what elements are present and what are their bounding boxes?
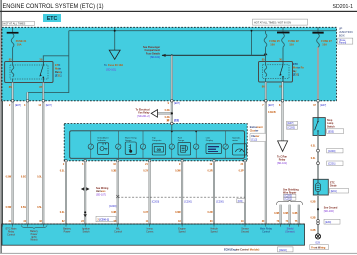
shield dashed wire bbox=[118, 196, 245, 198]
pin circle 6 bbox=[223, 144, 228, 149]
svg-text:[SD-100]: [SD-100] bbox=[324, 210, 334, 213]
ECM pin function labels bbox=[6, 228, 295, 242]
svg-text:ENGINE CONTROL SYSTEM (ETC) (1: ENGINE CONTROL SYSTEM (ETC) (1) bbox=[3, 3, 104, 10]
cluster bus nodes bbox=[171, 131, 173, 133]
svg-text:10A: 10A bbox=[322, 42, 327, 46]
shield wires to ECM bbox=[280, 205, 282, 224]
svg-text:0.5L: 0.5L bbox=[37, 206, 42, 209]
speedometer bbox=[232, 137, 246, 155]
svg-text:Fuel: Fuel bbox=[178, 137, 183, 139]
wire relay K2 pin86 to ECM bbox=[265, 82, 267, 224]
svg-text:Display: Display bbox=[206, 140, 214, 142]
cluster dividers bbox=[91, 131, 226, 159]
shield crossing mark bbox=[116, 195, 119, 198]
shield brace bbox=[276, 200, 302, 205]
svg-text:Cluster: Cluster bbox=[250, 129, 259, 132]
svg-text:[E34]: [E34] bbox=[325, 221, 331, 224]
fuse F31 feed wire bbox=[12, 27, 14, 32]
svg-text:To: To bbox=[104, 63, 107, 67]
svg-text:0.3G/B: 0.3G/B bbox=[268, 111, 276, 114]
to fuel pump arrow bbox=[109, 50, 120, 59]
svg-text:Switch: Switch bbox=[82, 230, 90, 233]
inline connector pair bbox=[317, 219, 320, 222]
svg-text:0.3Y: 0.3Y bbox=[143, 211, 148, 214]
svg-text:[C2]: [C2] bbox=[174, 119, 179, 122]
svg-text:0.3B: 0.3B bbox=[310, 201, 315, 204]
wire diode to ground bbox=[317, 195, 319, 233]
wire fused feed down to cluster bbox=[171, 55, 173, 123]
branch wire pin30 to bus and to pin87 net bbox=[28, 31, 69, 101]
svg-text:[C201]: [C201] bbox=[285, 198, 293, 201]
power bus bbox=[69, 30, 337, 32]
svg-text:Switch: Switch bbox=[327, 125, 335, 128]
relay K1 ETC main relay outer box bbox=[5, 62, 53, 83]
node on horizontal feed bbox=[171, 54, 173, 56]
connector labels near K2-87 wire bbox=[287, 121, 298, 125]
label HOT AT ALL TIMES bbox=[2, 21, 34, 25]
svg-text:Gauge: Gauge bbox=[178, 140, 185, 142]
svg-text:Control: Control bbox=[262, 230, 270, 233]
svg-text:[C200]: [C200] bbox=[184, 201, 192, 204]
svg-text:[SD-201-2]: [SD-201-2] bbox=[137, 115, 149, 118]
cluster entry connector bbox=[171, 122, 174, 125]
svg-text:Main: Main bbox=[55, 67, 61, 71]
svg-text:[C200]: [C200] bbox=[152, 201, 160, 204]
header rule bbox=[0, 11, 357, 12]
svg-text:Comm.: Comm. bbox=[146, 230, 154, 233]
wire relay K1 pin86 to ECM bbox=[12, 83, 14, 225]
svg-text:0.3W: 0.3W bbox=[175, 170, 181, 173]
svg-text:Motor): Motor) bbox=[31, 239, 38, 242]
wire relay K2 pin87 to arrow bbox=[282, 82, 284, 141]
svg-text:0.3W: 0.3W bbox=[175, 211, 181, 214]
odometer display bbox=[152, 136, 166, 155]
fuse F27 bbox=[317, 34, 320, 48]
ground G29 bbox=[315, 234, 320, 239]
svg-text:G29: G29 bbox=[315, 242, 320, 245]
svg-text:Computer: Computer bbox=[152, 139, 162, 142]
svg-text:ECM (Engine Control Module): ECM (Engine Control Module) bbox=[224, 249, 259, 252]
cluster bottom connectors bbox=[65, 160, 68, 163]
svg-text:[CE02]: [CE02] bbox=[279, 249, 287, 252]
relay K2 switch bbox=[280, 62, 283, 83]
svg-text:0.5L: 0.5L bbox=[37, 176, 42, 179]
fuse F31 bus bar bbox=[7, 32, 19, 34]
wire fuse F27 down to brake switch bbox=[317, 47, 319, 117]
svg-text:0.3L: 0.3L bbox=[60, 211, 65, 214]
fuse F22 bus bar bbox=[277, 32, 290, 34]
connector label on sensor wire bbox=[237, 199, 245, 203]
svg-text:Ground: Ground bbox=[241, 230, 250, 233]
svg-text:Relay: Relay bbox=[55, 70, 63, 74]
to condenser fan relay arrow bbox=[278, 141, 288, 152]
svg-text:0.3B: 0.3B bbox=[283, 212, 288, 215]
svg-text:SD201-1: SD201-1 bbox=[333, 4, 354, 10]
ECM box bbox=[2, 224, 305, 245]
svg-text:Immobilizer: Immobilizer bbox=[97, 136, 108, 139]
svg-text:Control: Control bbox=[114, 230, 122, 233]
svg-text:[E07]: [E07] bbox=[288, 122, 294, 125]
svg-text:[E32]: [E32] bbox=[293, 74, 299, 77]
relay K1 inner dashed box bbox=[10, 65, 48, 79]
relay K1 switch bbox=[40, 62, 44, 83]
svg-text:[C201]: [C201] bbox=[328, 163, 336, 166]
fuse F31 bbox=[11, 34, 14, 48]
svg-text:2 [C200-1]: 2 [C200-1] bbox=[97, 218, 109, 221]
svg-text:[CL2]: [CL2] bbox=[251, 138, 257, 141]
diode box bbox=[313, 179, 328, 195]
fuse F27 bus bar bbox=[312, 32, 323, 34]
svg-text:FUSE 31: FUSE 31 bbox=[16, 39, 27, 43]
svg-text:Panel): Panel) bbox=[339, 42, 346, 45]
multi display bbox=[206, 137, 222, 153]
pin circle 5 bbox=[194, 144, 199, 149]
svg-text:0.3R: 0.3R bbox=[208, 211, 213, 214]
svg-text:0.3L: 0.3L bbox=[60, 170, 65, 173]
inline splice on wire bbox=[84, 211, 86, 213]
svg-text:0.5W: 0.5W bbox=[6, 206, 12, 209]
arrow into fuse 25 wire bbox=[264, 52, 268, 55]
svg-text:Fuse 30 10A: Fuse 30 10A bbox=[108, 63, 123, 67]
relay K2 coil bbox=[264, 62, 266, 83]
wire branch net to ECM bbox=[27, 92, 29, 224]
brake switch box bbox=[313, 118, 325, 136]
svg-text:[E91]: [E91] bbox=[331, 190, 337, 193]
svg-text:HOT AT ALL TIMES: HOT AT ALL TIMES bbox=[3, 23, 25, 26]
svg-text:[E07]: [E07] bbox=[15, 104, 21, 107]
svg-text:[E07]: [E07] bbox=[320, 104, 326, 107]
svg-text:[SD-101]: [SD-101] bbox=[106, 69, 116, 72]
svg-text:[C200]: [C200] bbox=[328, 150, 336, 153]
svg-text:[SD-101]: [SD-101] bbox=[277, 162, 287, 165]
wire to electrical fan relay bbox=[158, 112, 172, 114]
wire brake switch to resistor bbox=[317, 136, 319, 180]
svg-text:0.3B: 0.3B bbox=[310, 229, 315, 232]
inline connector pair on wire bbox=[81, 187, 90, 190]
immobilizer indicator bbox=[97, 136, 108, 154]
instrument cluster box bbox=[64, 124, 247, 161]
main fuse/relay box (top cyan band) bbox=[2, 27, 337, 101]
water temperature gauge bbox=[125, 136, 138, 154]
svg-text:0.3G: 0.3G bbox=[165, 109, 170, 112]
svg-text:meter: meter bbox=[232, 139, 238, 142]
wire relay K1 pin87 down to ECM bbox=[42, 83, 44, 225]
svg-text:0.3B: 0.3B bbox=[274, 212, 279, 215]
connector on wire bbox=[317, 149, 320, 152]
svg-text:[E31]: [E31] bbox=[55, 74, 61, 78]
svg-text:0.3B: 0.3B bbox=[111, 211, 116, 214]
svg-text:I/P: I/P bbox=[339, 27, 342, 31]
svg-text:00: 00 bbox=[157, 147, 162, 152]
svg-text:Power: Power bbox=[64, 230, 71, 233]
svg-text:Speedo-: Speedo- bbox=[232, 137, 241, 139]
svg-text:[E07]: [E07] bbox=[174, 102, 180, 105]
svg-text:0.3Y: 0.3Y bbox=[143, 170, 148, 173]
label HOT IN ON OR START bbox=[253, 19, 308, 25]
svg-text:15A: 15A bbox=[289, 42, 294, 46]
pin circle 3 bbox=[140, 144, 145, 149]
svg-text:0.3L: 0.3L bbox=[311, 157, 316, 160]
svg-text:[E55]: [E55] bbox=[328, 130, 334, 133]
see passenger compartment arrow bbox=[162, 54, 266, 56]
svg-text:ETC: ETC bbox=[55, 63, 60, 67]
svg-text:0.3L: 0.3L bbox=[311, 144, 316, 147]
connector circles at band exit bbox=[11, 100, 14, 103]
svg-text:HOT AT ALL TIMES / HOT IN ON: HOT AT ALL TIMES / HOT IN ON bbox=[254, 21, 291, 24]
pin circle 1 bbox=[88, 144, 93, 149]
relay K1 coil bbox=[11, 62, 13, 83]
svg-text:JUNCTION: JUNCTION bbox=[339, 30, 353, 34]
fuse F27 feed bbox=[317, 27, 319, 32]
junction pin87 branch bbox=[42, 91, 44, 93]
svg-text:(Sensor): (Sensor) bbox=[285, 230, 294, 233]
left edge wire bbox=[2, 101, 4, 224]
svg-text:0.3P: 0.3P bbox=[239, 170, 244, 173]
svg-text:[SD-101]: [SD-101] bbox=[150, 56, 160, 59]
svg-text:0.3B: 0.3B bbox=[111, 170, 116, 173]
node fan relay tap bbox=[171, 112, 173, 114]
fuse F22 feed bbox=[282, 27, 284, 31]
svg-text:[E07]: [E07] bbox=[268, 104, 274, 107]
svg-text:0.3B: 0.3B bbox=[292, 212, 297, 215]
svg-text:[C200]: [C200] bbox=[109, 205, 117, 208]
fuse F25 bbox=[264, 31, 267, 62]
cluster inner frame bbox=[70, 131, 245, 159]
cluster output wires bbox=[65, 161, 67, 224]
svg-text:10A: 10A bbox=[17, 42, 22, 46]
svg-text:10A: 10A bbox=[270, 42, 275, 46]
svg-text:Control: Control bbox=[7, 233, 15, 236]
svg-text:LCD: LCD bbox=[206, 137, 211, 139]
relay K2 outer box bbox=[259, 62, 293, 83]
left frame line bbox=[1, 0, 2, 253]
svg-text:0.3B: 0.3B bbox=[310, 217, 315, 220]
svg-text:0.5G: 0.5G bbox=[21, 206, 26, 209]
to electrical fan relay arrow bbox=[151, 110, 157, 118]
svg-text:Diode: Diode bbox=[330, 185, 337, 188]
svg-text:FUSE 27: FUSE 27 bbox=[321, 39, 332, 43]
svg-text:0.3R: 0.3R bbox=[208, 170, 213, 173]
wire F31 to relay pin 85 bbox=[12, 47, 14, 61]
svg-text:[SD-107]: [SD-107] bbox=[96, 193, 106, 196]
ECM pin ticks bbox=[3, 224, 299, 227]
fuel gauge bbox=[178, 137, 191, 155]
bottom rule bbox=[0, 252, 357, 255]
svg-text:[E07]: [E07] bbox=[46, 104, 52, 107]
svg-text:Speed: Speed bbox=[211, 230, 219, 233]
svg-text:ETC: ETC bbox=[47, 16, 58, 22]
svg-text:[C200]: [C200] bbox=[288, 127, 296, 130]
fuse F22 bbox=[282, 33, 285, 61]
connector on wire bbox=[317, 162, 320, 165]
ground branch node bbox=[317, 208, 319, 210]
svg-text:FUSE 25: FUSE 25 bbox=[269, 39, 280, 43]
svg-text:Water Temp.: Water Temp. bbox=[125, 136, 138, 139]
relay K2 inner dashed box bbox=[263, 65, 290, 79]
node feed to fuel pump triangle bbox=[114, 27, 116, 50]
pin circle 2 bbox=[116, 144, 121, 149]
svg-text:[C9]: [C9] bbox=[238, 200, 243, 203]
svg-text:0.5G: 0.5G bbox=[21, 176, 26, 179]
ETC tag bbox=[43, 14, 61, 22]
svg-text:BOX: BOX bbox=[339, 34, 345, 38]
bus tap to horizontal feed bbox=[251, 31, 253, 56]
pin circle 4 bbox=[169, 144, 174, 149]
ECM internal brace bbox=[21, 225, 47, 229]
svg-text:Cluster: Cluster bbox=[251, 135, 259, 138]
svg-text:[C200]: [C200] bbox=[216, 201, 224, 204]
svg-text:Front Wiring: Front Wiring bbox=[311, 247, 326, 250]
svg-text:Speed: Speed bbox=[179, 230, 187, 233]
svg-text:FUSE 22: FUSE 22 bbox=[288, 39, 299, 43]
svg-text:Indicator: Indicator bbox=[97, 139, 106, 142]
svg-text:0.5W: 0.5W bbox=[6, 176, 12, 179]
